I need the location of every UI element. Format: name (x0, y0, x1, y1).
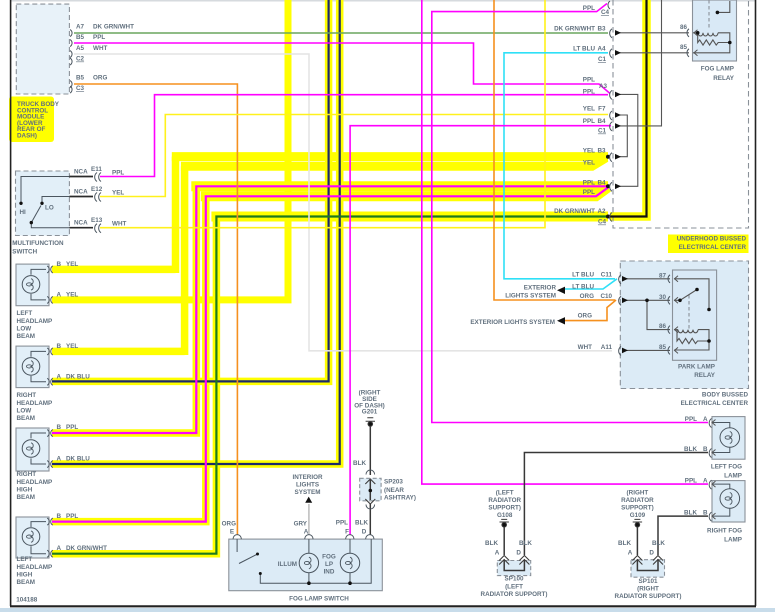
svg-text:DK GRN/WHT: DK GRN/WHT (66, 545, 107, 552)
svg-text:SUPPORT): SUPPORT) (488, 505, 521, 512)
svg-text:RADIATOR: RADIATOR (621, 497, 654, 504)
svg-text:D: D (516, 549, 521, 556)
svg-text:LIGHTS SYSTEM: LIGHTS SYSTEM (505, 292, 556, 299)
svg-text:(RIGHT: (RIGHT (627, 490, 649, 497)
svg-text:A: A (57, 373, 62, 380)
svg-text:BLK: BLK (355, 520, 368, 527)
svg-text:30: 30 (659, 294, 667, 301)
svg-text:BEAM: BEAM (17, 415, 36, 422)
svg-text:B: B (703, 510, 708, 517)
svg-text:LT BLU: LT BLU (573, 45, 595, 52)
svg-text:HEADLAMP: HEADLAMP (17, 564, 53, 571)
svg-text:HEADLAMP: HEADLAMP (17, 479, 53, 486)
svg-text:YEL: YEL (112, 190, 124, 197)
svg-text:B: B (57, 424, 62, 431)
svg-text:B5: B5 (76, 34, 85, 41)
svg-text:PPL: PPL (583, 89, 595, 96)
svg-text:PPL: PPL (93, 34, 105, 41)
svg-text:RIGHT: RIGHT (17, 392, 37, 399)
svg-text:RADIATOR SUPPORT): RADIATOR SUPPORT) (615, 593, 682, 600)
svg-text:NCA: NCA (74, 220, 88, 227)
svg-text:INTERIOR: INTERIOR (292, 474, 323, 481)
svg-text:PPL: PPL (685, 416, 697, 423)
svg-text:YEL: YEL (66, 261, 78, 268)
svg-text:E13: E13 (91, 217, 103, 224)
svg-text:B4: B4 (597, 179, 606, 186)
svg-text:A5: A5 (76, 45, 85, 52)
svg-text:SP203: SP203 (384, 479, 403, 486)
svg-text:(LEFT: (LEFT (505, 584, 523, 591)
svg-text:RELAY: RELAY (694, 372, 716, 379)
svg-text:LEFT FOG: LEFT FOG (711, 464, 742, 471)
svg-text:85: 85 (659, 344, 667, 351)
svg-text:C1: C1 (598, 56, 607, 63)
svg-text:A: A (495, 549, 500, 556)
svg-text:WHT: WHT (112, 221, 126, 228)
svg-text:SP101: SP101 (639, 578, 658, 585)
svg-text:86: 86 (680, 24, 688, 31)
svg-text:B3: B3 (597, 148, 606, 155)
svg-text:B5: B5 (76, 75, 85, 82)
svg-text:(NEAR: (NEAR (384, 487, 404, 494)
svg-text:PPL: PPL (583, 179, 595, 186)
svg-text:LO: LO (45, 205, 54, 212)
svg-text:C10: C10 (600, 293, 612, 300)
svg-text:PPL: PPL (112, 170, 124, 177)
svg-text:PPL: PPL (685, 478, 697, 485)
svg-text:B: B (57, 513, 62, 520)
svg-text:NCA: NCA (74, 189, 88, 196)
svg-text:SWITCH: SWITCH (12, 249, 37, 256)
svg-text:SP100: SP100 (505, 576, 524, 583)
svg-text:PARK LAMP: PARK LAMP (678, 364, 715, 371)
svg-text:C4: C4 (598, 219, 607, 226)
svg-text:SYSTEM: SYSTEM (295, 489, 321, 496)
svg-text:HIGH: HIGH (17, 572, 33, 579)
svg-text:PPL: PPL (583, 77, 595, 84)
svg-text:IND: IND (324, 569, 335, 576)
svg-text:ILLUM: ILLUM (278, 561, 297, 568)
svg-text:YEL: YEL (66, 291, 78, 298)
svg-text:104188: 104188 (16, 597, 38, 604)
svg-text:ELECTRICAL CENTER: ELECTRICAL CENTER (679, 244, 747, 251)
svg-text:BLK: BLK (353, 460, 366, 467)
svg-text:RADIATOR SUPPORT): RADIATOR SUPPORT) (481, 591, 548, 598)
svg-text:GRY: GRY (294, 521, 308, 528)
svg-text:YEL: YEL (583, 106, 595, 113)
svg-text:A: A (57, 545, 62, 552)
svg-text:PPL: PPL (66, 513, 78, 520)
svg-text:ELECTRICAL CENTER: ELECTRICAL CENTER (681, 400, 749, 407)
svg-text:WHT: WHT (578, 344, 592, 351)
svg-text:A: A (703, 478, 708, 485)
svg-text:87: 87 (659, 272, 667, 279)
svg-text:ORG: ORG (93, 75, 107, 82)
svg-text:A: A (57, 456, 62, 463)
svg-text:B: B (57, 343, 62, 350)
svg-text:RIGHT FOG: RIGHT FOG (707, 528, 742, 535)
svg-text:BEAM: BEAM (17, 333, 36, 340)
svg-text:PPL: PPL (583, 189, 595, 196)
svg-text:PPL: PPL (583, 5, 595, 12)
svg-text:DASH): DASH) (17, 133, 37, 140)
svg-text:LP: LP (325, 561, 333, 568)
svg-text:BLK: BLK (618, 540, 631, 547)
svg-text:MULTIFUNCTION: MULTIFUNCTION (12, 240, 64, 247)
svg-text:LAMP: LAMP (724, 537, 742, 544)
svg-text:RELAY: RELAY (713, 75, 735, 82)
svg-text:DK BLU: DK BLU (66, 456, 90, 463)
svg-text:HI: HI (20, 209, 27, 216)
svg-text:C3: C3 (76, 85, 85, 92)
svg-text:ORG: ORG (580, 293, 594, 300)
svg-text:C4: C4 (601, 9, 610, 16)
svg-text:A2: A2 (597, 208, 606, 215)
svg-text:RIGHT: RIGHT (17, 471, 37, 478)
svg-text:C1: C1 (598, 128, 607, 135)
svg-text:G108: G108 (497, 512, 513, 519)
svg-text:LT BLU: LT BLU (572, 283, 594, 290)
svg-text:DK GRN/WHT: DK GRN/WHT (93, 24, 134, 31)
svg-text:LIGHTS: LIGHTS (296, 482, 319, 489)
svg-text:ASHTRAY): ASHTRAY) (384, 495, 416, 502)
svg-text:C2: C2 (76, 56, 85, 63)
svg-text:E11: E11 (91, 166, 102, 173)
svg-text:SUPPORT): SUPPORT) (621, 505, 654, 512)
svg-text:B4: B4 (597, 118, 606, 125)
svg-text:HIGH: HIGH (17, 487, 33, 494)
svg-text:BEAM: BEAM (17, 579, 36, 586)
svg-text:YEL: YEL (583, 160, 595, 167)
svg-text:(RIGHT: (RIGHT (637, 586, 659, 593)
svg-text:ORG: ORG (222, 521, 236, 528)
svg-text:BLK: BLK (684, 446, 697, 453)
svg-text:DK BLU: DK BLU (66, 373, 90, 380)
svg-text:LT BLU: LT BLU (572, 271, 594, 278)
svg-text:BLK: BLK (485, 540, 498, 547)
svg-text:FOG LAMP: FOG LAMP (701, 66, 734, 73)
svg-text:A: A (703, 416, 708, 423)
svg-text:D: D (362, 529, 367, 536)
svg-text:85: 85 (680, 44, 688, 51)
svg-text:FOG LAMP SWITCH: FOG LAMP SWITCH (289, 596, 349, 603)
svg-text:E12: E12 (91, 186, 103, 193)
svg-text:BLK: BLK (652, 540, 665, 547)
svg-text:BLK: BLK (684, 510, 697, 517)
svg-text:EXTERIOR LIGHTS SYSTEM: EXTERIOR LIGHTS SYSTEM (470, 319, 555, 326)
svg-text:DK GRN/WHT: DK GRN/WHT (554, 208, 595, 215)
svg-text:LAMP: LAMP (724, 473, 742, 480)
svg-text:YEL: YEL (583, 148, 595, 155)
svg-text:RADIATOR: RADIATOR (488, 497, 521, 504)
svg-text:F: F (345, 529, 349, 536)
svg-text:E: E (230, 529, 234, 536)
svg-text:86: 86 (659, 323, 667, 330)
svg-text:LEFT: LEFT (17, 556, 33, 563)
svg-text:A11: A11 (601, 344, 613, 351)
svg-text:NCA: NCA (74, 169, 88, 176)
svg-text:UNDERHOOD BUSSED: UNDERHOOD BUSSED (677, 236, 747, 243)
svg-text:B: B (703, 446, 708, 453)
svg-text:(LEFT: (LEFT (496, 490, 514, 497)
svg-text:BEAM: BEAM (17, 494, 36, 501)
svg-text:LOW: LOW (17, 326, 32, 333)
svg-text:HEADLAMP: HEADLAMP (17, 400, 53, 407)
svg-text:D: D (649, 549, 654, 556)
svg-text:HEADLAMP: HEADLAMP (17, 318, 53, 325)
svg-text:A7: A7 (76, 24, 85, 31)
svg-text:EXTERIOR: EXTERIOR (524, 284, 557, 291)
svg-text:A: A (304, 529, 309, 536)
svg-text:BLK: BLK (519, 540, 532, 547)
svg-text:B: B (57, 261, 62, 268)
svg-text:G109: G109 (630, 512, 646, 519)
svg-text:LEFT: LEFT (17, 310, 33, 317)
svg-text:A: A (628, 549, 633, 556)
svg-text:A4: A4 (597, 45, 606, 52)
svg-text:B3: B3 (597, 25, 606, 32)
svg-text:DK GRN/WHT: DK GRN/WHT (554, 25, 595, 32)
svg-text:ORG: ORG (578, 313, 592, 320)
svg-text:C11: C11 (601, 271, 613, 278)
svg-text:PPL: PPL (336, 520, 348, 527)
svg-text:YEL: YEL (66, 343, 78, 350)
svg-text:LOW: LOW (17, 408, 32, 415)
svg-text:A3: A3 (599, 83, 608, 90)
svg-text:WHT: WHT (93, 45, 107, 52)
svg-text:PPL: PPL (66, 424, 78, 431)
svg-text:A: A (57, 291, 62, 298)
svg-text:FOG: FOG (322, 554, 336, 561)
svg-text:F7: F7 (598, 106, 606, 113)
svg-text:BODY BUSSED: BODY BUSSED (702, 392, 749, 399)
svg-text:G201: G201 (362, 409, 378, 416)
svg-text:PPL: PPL (583, 118, 595, 125)
